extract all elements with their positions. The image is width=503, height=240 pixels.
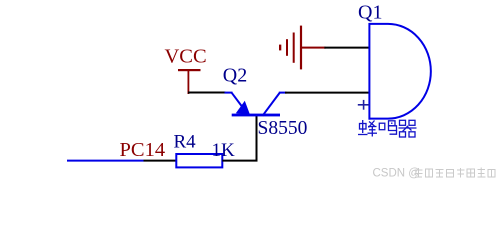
svg-text:VCC: VCC — [165, 46, 207, 68]
plus terminal mark — [358, 100, 370, 110]
transistor Q2 (PNP S8550) — [225, 93, 287, 117]
svg-text:PC14: PC14 — [120, 139, 166, 161]
svg-text:R4: R4 — [174, 132, 197, 153]
watermark CSDN — [373, 168, 496, 180]
glyph feng — [358, 120, 377, 137]
ground — [279, 26, 326, 70]
glyph ming — [379, 121, 396, 134]
power port VCC — [165, 46, 207, 94]
wire PC14 black segment to R4 — [144, 160, 177, 162]
svg-text:S8550: S8550 — [258, 118, 308, 139]
wire PC14 blue segment — [67, 160, 144, 162]
wire R4 to Q2 base — [222, 115, 256, 161]
svg-text:Q2: Q2 — [223, 64, 247, 86]
watermark CJK approximation — [415, 168, 496, 178]
buzzer Q1 symbol — [369, 23, 431, 120]
label 蜂鸣器 (buzzer) hand-drawn glyphs — [358, 120, 417, 137]
svg-text:CSDN @: CSDN @ — [373, 168, 420, 180]
svg-text:1K: 1K — [212, 140, 236, 161]
wire Q2 collector to buzzer — [285, 92, 369, 94]
wire ground to buzzer — [324, 47, 369, 49]
glyph qi — [399, 120, 417, 137]
wire VCC to Q2 emitter — [188, 92, 226, 94]
resistor R4 — [176, 154, 222, 167]
svg-text:Q1: Q1 — [358, 1, 382, 23]
